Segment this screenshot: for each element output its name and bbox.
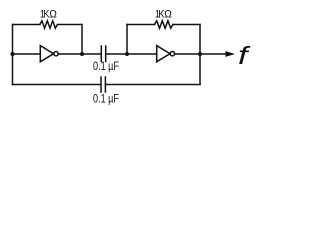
wire: output arrow line to f: [200, 53, 226, 55]
svg-text:Ω: Ω: [49, 8, 57, 20]
svg-text:0.1 µF: 0.1 µF: [93, 94, 119, 106]
node: U1 output junction: [80, 52, 84, 56]
label: R2 value 1KΩ: [155, 8, 172, 21]
capacitor C1 right plate: [105, 46, 107, 62]
wire: bottom rail left segment: [13, 84, 102, 86]
wire: C1 to inverter U2 input: [106, 53, 157, 55]
wire: R2 feedback top-left segment: [127, 24, 155, 26]
wire: R2 right vertical down to output node: [199, 25, 201, 55]
resistor R1 1KΩ zigzag: [40, 21, 58, 28]
op-amp U2 output bubble: [170, 52, 174, 56]
svg-text:0.1 µF: 0.1 µF: [93, 61, 119, 73]
wire: U1 output to capacitor C1: [58, 53, 101, 55]
op-amp U1 output bubble: [54, 52, 58, 56]
svg-text:Ω: Ω: [164, 8, 172, 20]
node: U2 input junction: [125, 52, 129, 56]
wire: bottom rail right segment: [105, 84, 200, 86]
capacitor C2 right plate: [104, 77, 106, 92]
wire: R1 feedback top-left segment: [13, 24, 41, 26]
op-amp U1 inverter triangle: [40, 46, 53, 62]
wire: output node down to bottom rail: [199, 54, 201, 85]
wire: R2 left vertical up from node B: [126, 25, 128, 55]
op-amp U2 inverter triangle: [157, 46, 170, 62]
wire: U2 output to output node: [175, 53, 200, 55]
wire: R1 right vertical down to output node: [81, 25, 83, 55]
arrowhead of output f: [226, 51, 236, 57]
capacitor C2 left plate: [100, 77, 102, 92]
node: U1 input junction: [11, 52, 15, 56]
resistor R2 1KΩ zigzag: [155, 21, 173, 28]
svg-text:f: f: [238, 42, 252, 70]
wire: left vertical rail: [12, 25, 14, 85]
node: U2 output junction: [198, 52, 202, 56]
label: R1 value 1KΩ: [40, 8, 57, 21]
wire: R1 feedback top-right segment: [58, 24, 82, 26]
wire: input to inverter U1: [13, 53, 41, 55]
capacitor C1 left plate: [100, 46, 102, 62]
wire: R2 feedback top-right segment: [173, 24, 200, 26]
